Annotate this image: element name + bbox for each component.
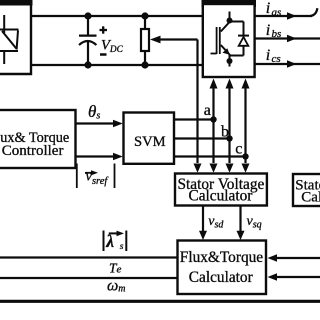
wire v_sref arrow: [76, 153, 123, 161]
node IGBT top: [227, 18, 233, 24]
wire v_sq: [237, 206, 245, 241]
wire i_as: [255, 8, 317, 20]
svg-text:c: c: [235, 140, 242, 157]
node c: [242, 153, 248, 159]
svg-text:Calculat: Calculat: [301, 190, 320, 206]
svg-text:λ: λ: [105, 231, 114, 251]
wire SVM out b: [174, 137, 230, 139]
wire input arrow right 2: [268, 273, 320, 281]
wire gate b: [226, 79, 234, 173]
wire v_sd: [199, 206, 207, 241]
wire chopper control arrow: [150, 36, 202, 173]
wire top DC bus: [32, 15, 202, 17]
wire SVM out c: [174, 155, 246, 157]
node resistor bottom: [141, 61, 148, 68]
node IGBT bottom: [227, 58, 233, 64]
wire torque out: [0, 277, 178, 279]
Flux&Torque Calculator box: [178, 241, 267, 295]
plus sign: [100, 26, 108, 33]
wire omega_m bus (thick): [0, 300, 320, 303]
svg-text:Te: Te: [109, 261, 122, 276]
Stator Current Calculator box (cut off at right): [293, 174, 320, 206]
svg-text:Calculator: Calculator: [189, 187, 253, 204]
node a: [210, 116, 216, 122]
node resistor top: [141, 12, 148, 19]
svg-text:Flux&Torque: Flux&Torque: [180, 249, 264, 266]
wire input arrow right 1: [268, 254, 320, 262]
wire theta_s arrow: [76, 120, 123, 128]
wire SVM out a: [174, 118, 214, 120]
wire gate c: [242, 79, 250, 173]
IGBT with antiparallel diode inside inverter: [211, 12, 250, 67]
thyristor symbol inside rectifier: [0, 15, 19, 64]
Flux&Torque Controller box: [0, 110, 76, 168]
wire i_cs: [255, 60, 320, 67]
node cap bottom: [84, 61, 91, 68]
inverter box U1: [202, 0, 257, 77]
node cap top: [84, 12, 91, 19]
wire i_bs: [255, 35, 320, 42]
svg-text:SVM: SVM: [134, 134, 166, 150]
resistor (brake chopper): [141, 16, 149, 65]
label lambda_s bars and arrow: [104, 231, 127, 252]
SVM box: [124, 113, 175, 164]
minus sign: [100, 53, 107, 56]
svg-text:Controller: Controller: [2, 143, 64, 159]
node b: [226, 135, 232, 141]
wire gate a: [210, 79, 218, 173]
wire flux magnitude out: [0, 256, 178, 258]
Stator Voltage Calculator box: [175, 174, 267, 206]
svg-text:s: s: [120, 242, 124, 252]
svg-text:b: b: [221, 123, 229, 140]
capacitor VDC: [79, 16, 97, 65]
wire bottom DC bus: [32, 64, 202, 66]
label v_sref bars and arrow: [77, 164, 115, 189]
svg-text:a: a: [204, 102, 211, 119]
rectifier box (cut off at left edge): [0, 0, 33, 74]
svg-text:Calculator: Calculator: [189, 269, 253, 286]
